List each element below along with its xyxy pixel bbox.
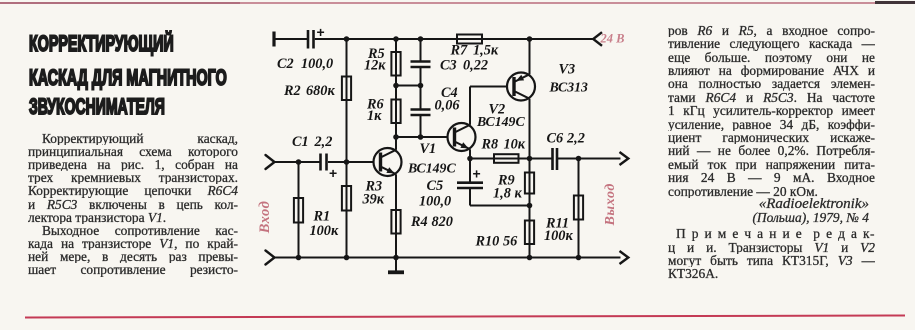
capacitor C3 xyxy=(411,60,431,63)
node junction R5-R6 xyxy=(393,83,399,89)
resistor R2 xyxy=(342,77,351,101)
wire V3 collector lead xyxy=(529,99,531,159)
headline xyxy=(29,33,174,55)
node junction V1 collector xyxy=(393,134,399,140)
transistor V3 xyxy=(507,73,535,101)
node junction R1 bottom xyxy=(296,255,302,261)
wire R2 branch xyxy=(346,39,348,162)
node junction V3 emitter to rail xyxy=(527,36,533,42)
node junction R2 top xyxy=(344,36,350,42)
wire bottom common rail xyxy=(274,257,621,259)
resistor R6 xyxy=(391,100,400,124)
left column text xyxy=(28,132,238,277)
wire C6 to output xyxy=(558,158,621,160)
wire V1 collector node to V2 base xyxy=(396,136,448,138)
transistor V2 xyxy=(448,123,476,151)
wire C1 to V1 base xyxy=(328,161,374,163)
capacitor C4 xyxy=(411,108,431,111)
terminal input bottom arrow xyxy=(266,251,275,265)
wire V2 collector to V3 base xyxy=(470,86,508,88)
wire R5 branch xyxy=(395,39,397,86)
wire V2 emitter to C6 xyxy=(470,158,552,160)
wire V3 emitter lead xyxy=(529,39,531,74)
right column text xyxy=(668,24,875,281)
wire C4 bottom lead xyxy=(420,115,422,137)
transistor V1 xyxy=(374,148,402,176)
capacitor C6 xyxy=(551,148,554,170)
node junction C3-C4 xyxy=(418,83,424,89)
top red rule xyxy=(0,2,915,5)
wire V2 emitter lead xyxy=(469,149,471,158)
node junction R5 top xyxy=(393,36,399,42)
resistor R4 xyxy=(391,210,400,234)
node junction C4 bottom xyxy=(418,134,424,140)
wire C3 bottom lead xyxy=(420,67,422,86)
node junction ground xyxy=(393,255,399,261)
node junction R3 bottom xyxy=(344,255,350,261)
resistor R5 xyxy=(391,52,400,76)
node junction R1 top xyxy=(296,159,302,165)
terminal left end of C2 xyxy=(272,32,275,47)
wire V1 emitter lead xyxy=(395,174,397,257)
node junction V2 emitter xyxy=(467,156,473,162)
capacitor C5 with leads xyxy=(469,159,471,183)
wire C4 top lead xyxy=(420,86,422,110)
resistor R9 with leads xyxy=(529,159,531,206)
node junction R11 bottom xyxy=(576,255,582,261)
terminal input top arrow xyxy=(266,155,275,169)
wire V2 collector lead xyxy=(469,87,471,125)
node junction R9-R10-C5 xyxy=(527,203,533,209)
node junction R2-R3-base xyxy=(344,159,350,165)
wire top supply rail left segment xyxy=(275,38,307,40)
resistor R7 xyxy=(457,35,482,44)
resistor R11 with leads xyxy=(578,159,580,258)
wire input top segment xyxy=(274,161,320,163)
capacitor C2 xyxy=(307,30,310,49)
wire top supply rail middle segment xyxy=(315,38,482,40)
node junction R10 bottom xyxy=(527,255,533,261)
node junction R11 top xyxy=(576,156,582,162)
wire V1 collector lead xyxy=(395,137,397,150)
capacitor C1 xyxy=(319,154,322,171)
wire top supply rail right segment xyxy=(482,38,593,40)
terminal output top arrow xyxy=(620,152,629,165)
terminal output bottom arrow xyxy=(620,251,629,264)
wire C5 to R9R10 node xyxy=(470,205,530,207)
terminal +24V arrow xyxy=(593,32,602,46)
wire R6 branch xyxy=(395,86,397,138)
resistor R8 xyxy=(494,154,519,163)
resistor R3 with leads xyxy=(346,162,348,258)
resistor R10 with leads xyxy=(529,206,531,258)
resistor R1 with leads xyxy=(298,162,300,258)
wire R5C3 to R6C4 link xyxy=(396,85,421,87)
ground xyxy=(395,258,397,272)
node junction V3 collector xyxy=(527,156,533,162)
wire C3 top lead xyxy=(420,39,422,61)
node junction C3 top xyxy=(418,36,424,42)
